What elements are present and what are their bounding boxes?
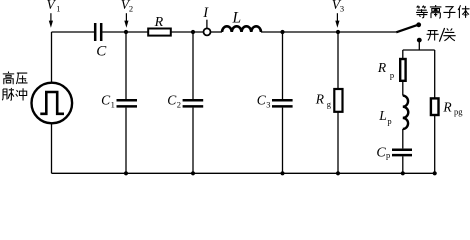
- svg-text:I: I: [202, 5, 209, 21]
- svg-text:1: 1: [111, 100, 115, 110]
- svg-text:C: C: [96, 44, 107, 60]
- svg-text:R: R: [315, 91, 325, 106]
- svg-text:C: C: [257, 92, 267, 107]
- svg-text:2: 2: [177, 100, 181, 110]
- svg-text:R: R: [442, 99, 452, 114]
- svg-text:1: 1: [56, 4, 60, 14]
- svg-text:R: R: [154, 15, 164, 30]
- svg-text:C: C: [101, 92, 111, 107]
- svg-text:L: L: [378, 108, 387, 123]
- svg-text:3: 3: [340, 4, 344, 14]
- svg-text:p: p: [390, 70, 394, 80]
- svg-text:3: 3: [266, 100, 270, 110]
- svg-text:C: C: [376, 145, 386, 160]
- svg-text:p: p: [386, 150, 390, 160]
- svg-text:L: L: [232, 10, 242, 27]
- svg-text:R: R: [377, 60, 387, 75]
- svg-text:g: g: [327, 99, 332, 109]
- svg-text:p: p: [387, 116, 391, 126]
- svg-text:pg: pg: [454, 107, 463, 117]
- svg-text:V: V: [47, 0, 57, 12]
- svg-text:C: C: [167, 92, 177, 107]
- svg-text:2: 2: [129, 4, 133, 14]
